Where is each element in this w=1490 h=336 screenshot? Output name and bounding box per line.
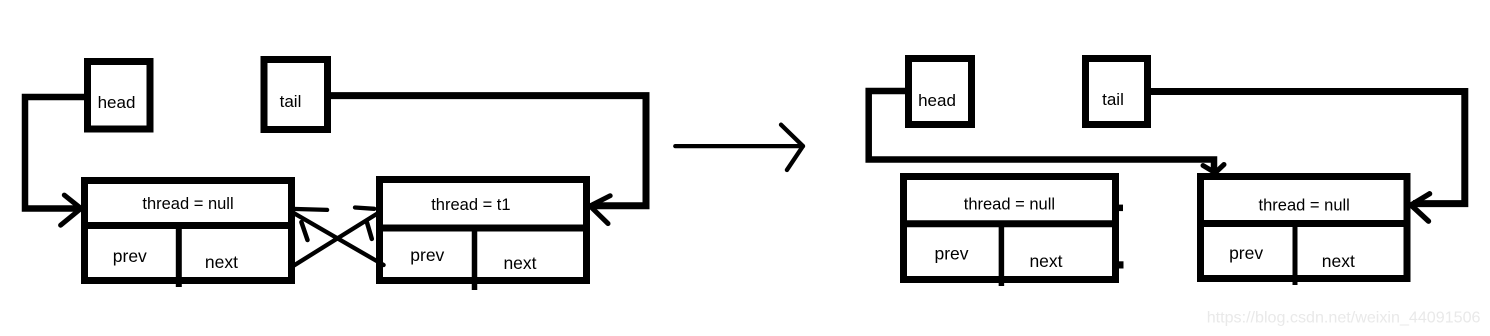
arrowhead into node1 left edge (61, 195, 81, 225)
tail box (right diagram) (1086, 59, 1148, 125)
wire: head to node4 (right diagram) (869, 91, 1214, 171)
svg-text:https://blog.csdn.net/weixin_4: https://blog.csdn.net/weixin_44091506 (1207, 309, 1481, 327)
svg-text:thread = null: thread = null (1259, 197, 1350, 215)
big transition arrow (center) (675, 125, 803, 170)
node2 box: thread = t1 (left diagram) (376, 180, 590, 291)
wire: tail to node4 (right diagram) (1151, 92, 1465, 204)
leftover nub on node3 right edge (upper) (1118, 205, 1123, 212)
arrowhead into node4 right edge (1411, 194, 1430, 221)
svg-text:prev: prev (1229, 243, 1263, 263)
svg-text:thread = null: thread = null (142, 195, 233, 213)
svg-text:next: next (503, 253, 536, 273)
svg-text:head: head (918, 91, 956, 110)
svg-text:tail: tail (1102, 90, 1124, 109)
wire: head to node1 (left diagram) (25, 97, 84, 209)
svg-text:thread = t1: thread = t1 (431, 196, 510, 214)
svg-text:prev: prev (934, 244, 968, 264)
svg-text:next: next (1322, 251, 1355, 271)
svg-text:head: head (98, 93, 136, 112)
svg-text:next: next (205, 252, 238, 272)
leftover nub on node3 right edge (lower) (1118, 261, 1124, 268)
wire: tail to node2 (left diagram) (331, 96, 646, 206)
node4 box: thread = null (right diagram) (1197, 177, 1410, 286)
head box (right diagram) (909, 59, 972, 125)
tail box (left diagram) (264, 60, 328, 130)
node1 box: thread = null (left diagram) (81, 181, 295, 288)
arrow: node1 next to node2 (diagonal, left diagram) (291, 208, 381, 268)
svg-text:thread = null: thread = null (964, 196, 1055, 214)
node3 box: thread = null (right diagram) (900, 177, 1119, 287)
arrowhead into node2 right edge (590, 196, 610, 224)
svg-text:tail: tail (280, 92, 302, 111)
svg-text:prev: prev (410, 245, 444, 265)
arrow: node2 prev to node1 (diagonal, left diagram) (292, 209, 384, 265)
svg-text:next: next (1029, 251, 1062, 271)
svg-text:prev: prev (113, 246, 147, 266)
head box (left diagram) (88, 62, 151, 130)
arrowhead into node4 top edge (1203, 165, 1224, 173)
